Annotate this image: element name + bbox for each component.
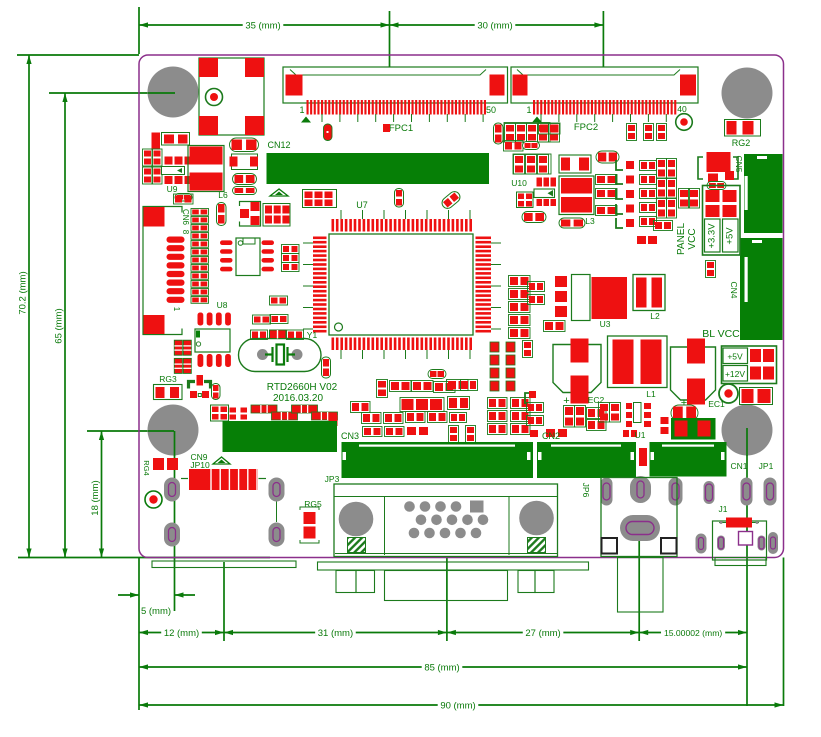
component with white center: [559, 155, 591, 173]
connector CN9 block: [223, 421, 338, 452]
J1 red component: [726, 518, 752, 528]
svg-text:FPC2: FPC2: [574, 122, 598, 133]
CN6 pad bottom: [144, 315, 165, 334]
svg-text:35 (mm): 35 (mm): [245, 20, 280, 31]
svg-text:18 (mm): 18 (mm): [90, 480, 101, 515]
svg-text:2016.03.20: 2016.03.20: [273, 393, 323, 404]
svg-text:90 (mm): 90 (mm): [440, 700, 475, 711]
+5V pads: [750, 349, 761, 362]
svg-text:FPC1: FPC1: [389, 123, 413, 134]
small pad below FPC1: [383, 124, 390, 132]
extension line x=783 right edge: [783, 558, 785, 707]
IC U7 pins bottom: [332, 338, 473, 351]
wire stubs ovals: [276, 502, 278, 523]
pads row U9 area: [165, 157, 173, 165]
pads right of FPC2 cluster: [539, 123, 561, 134]
pads row above U9: [152, 133, 161, 150]
mounting hole bottom-right: [722, 405, 773, 456]
svg-text:CN3: CN3: [341, 431, 359, 441]
J1 oval pads: [696, 534, 707, 554]
svg-text:L2: L2: [650, 311, 660, 321]
extension line y=431 to hole center: [87, 430, 174, 432]
mounting hole top-left: [148, 67, 199, 118]
pads below EC2 cluster: [564, 406, 575, 428]
+12V label box: [723, 366, 748, 382]
L3 pill: [559, 218, 585, 228]
extension line board bottom y=557: [18, 557, 270, 559]
FPC2 pad left: [513, 75, 528, 96]
jumper block panel vcc outline: [703, 186, 741, 256]
vertical pill x220: [217, 203, 227, 226]
HDMI shell oval: [620, 515, 660, 541]
svg-text:40: 40: [677, 104, 687, 114]
svg-text:15.00002 (mm): 15.00002 (mm): [664, 628, 722, 638]
HDMI connector outline: [601, 478, 677, 557]
VGA pin holes: [404, 501, 415, 512]
svg-text:CN12: CN12: [267, 140, 290, 150]
dimension 30 (mm) top: [390, 24, 475, 26]
component above CN6: [174, 194, 194, 204]
buzzer pads: [199, 58, 218, 77]
svg-text:RTD2660H V02: RTD2660H V02: [267, 382, 338, 393]
svg-text:27 (mm): 27 (mm): [525, 628, 560, 639]
svg-text:BL VCC: BL VCC: [702, 328, 740, 340]
dimension 70.2 (mm) left: [28, 55, 30, 558]
svg-text:EC2: EC2: [588, 395, 605, 405]
connector CN1 block: [650, 442, 727, 477]
transistor U1: [634, 403, 642, 423]
FPC1 pad left: [286, 75, 303, 96]
CN6 pin pads: [167, 237, 185, 243]
striped pad components above RG3: [174, 340, 182, 355]
svg-text:RG2: RG2: [732, 138, 751, 148]
connector CN6 outline: [143, 207, 182, 335]
FPC2 pad right: [680, 75, 696, 96]
+5V label box: [723, 348, 748, 364]
dimension extension line left x=139 top: [138, 7, 140, 54]
through hole oval pads CN9: [164, 478, 180, 502]
svg-text:65 (mm): 65 (mm): [54, 308, 65, 343]
VGA hatched mount left: [348, 538, 366, 553]
jumper +5V label box: [723, 219, 739, 252]
VGA screw boss right below: [518, 571, 535, 593]
svg-text:U1: U1: [635, 430, 646, 440]
pads right small: [627, 124, 637, 141]
IC U7 pins right: [476, 237, 492, 333]
dimension 12 (mm): [139, 632, 161, 634]
jumper +3.3V label box: [705, 219, 721, 252]
dimension 5 (mm): [118, 594, 139, 596]
pad grid below CN12: [303, 190, 337, 208]
svg-text:1: 1: [526, 105, 531, 115]
pill pairs column: [233, 174, 257, 185]
IC U6 body: [236, 238, 260, 276]
buzzer SP1 outline: [199, 58, 264, 135]
tall pad columns right of field: [490, 342, 499, 352]
capacitor above panel vcc: [698, 157, 738, 179]
warning triangle near JP10: [213, 457, 230, 464]
IC U7 body: [329, 234, 473, 335]
pads right of EC1: [740, 388, 773, 405]
svg-text:U7: U7: [356, 200, 368, 210]
pads right of L3 block: [596, 175, 618, 185]
svg-text:U3: U3: [600, 319, 611, 329]
svg-text:PANEL: PANEL: [676, 223, 687, 255]
vertical pairs above CN9: [230, 408, 237, 413]
connector FPC2 outline: [511, 67, 698, 103]
pad cluster below FPC2 pin1: [494, 123, 504, 144]
capacitor EC1 ring: [719, 384, 738, 403]
svg-text:CN6: CN6: [181, 209, 190, 226]
pads column x641: [640, 161, 657, 171]
svg-text:+3.3V: +3.3V: [707, 223, 718, 249]
extension line y=55 left: [17, 54, 139, 56]
component right of U9: [232, 154, 258, 170]
red fiducial ring: [145, 491, 162, 508]
svg-text:8: 8: [181, 230, 190, 235]
regulator U3: [572, 275, 591, 321]
svg-text:J1: J1: [719, 504, 728, 514]
two-pad component below U9: [175, 194, 192, 202]
U6 pins left: [220, 240, 233, 245]
VGA hatched mount right: [528, 538, 546, 553]
pad cluster below FPC2 row2: [504, 141, 524, 152]
FPC2 pin 40 ring: [676, 114, 693, 131]
mounting hole top-right: [722, 68, 773, 119]
pads below-left of U3: [544, 321, 566, 332]
warning triangle near CN12: [270, 189, 288, 196]
pads 3x2 grid right: [263, 204, 290, 227]
panel vcc pads: [706, 190, 720, 202]
vertical two pad component below CN12: [395, 189, 404, 208]
svg-text:30 (mm): 30 (mm): [477, 20, 512, 31]
U8 pins bottom: [198, 354, 204, 367]
dimension 31 (mm): [224, 632, 315, 634]
svg-text:CN1: CN1: [730, 461, 747, 471]
capacitor EC1 can: [671, 347, 716, 400]
VGA jack screw right: [519, 501, 554, 536]
pad pairs below U6: [253, 315, 271, 324]
svg-text:1: 1: [172, 307, 181, 312]
pads row below: [165, 176, 173, 184]
svg-text:JP6: JP6: [581, 483, 591, 498]
pads below U10 pill: [522, 212, 546, 223]
bracket strip right below board: [318, 562, 589, 570]
svg-text:JP10: JP10: [190, 460, 210, 470]
FPC2 pin ticks: [540, 114, 542, 122]
dimension 18 (mm) left: [101, 431, 103, 558]
connector CN2 block: [537, 442, 636, 478]
IC U9: [162, 133, 190, 146]
diode D1 white pill: [162, 167, 185, 175]
buzzer center hole: [206, 89, 223, 106]
dimension extension line x=603: [602, 11, 604, 86]
resistor RG2: [725, 120, 761, 137]
pads row above Y1: [251, 330, 268, 340]
red pill right of Y1: [322, 357, 331, 378]
angle bracket column with pads: [616, 160, 623, 170]
VGA screw boss left below: [336, 571, 356, 593]
rotated pill component: [440, 189, 462, 210]
pads cluster left of U1: [599, 403, 610, 423]
svg-text:+5V: +5V: [727, 352, 743, 362]
pads column x658: [657, 159, 667, 179]
green wire bracket right: [525, 393, 534, 404]
extension line x=447: [446, 558, 448, 641]
pads far right of grid: [527, 403, 544, 413]
svg-text:CN4: CN4: [729, 281, 739, 298]
connector CN12 block: [267, 153, 490, 184]
connector BL power outline: [722, 346, 777, 384]
green box pads below EC1: [671, 418, 716, 440]
pads right of U6: [282, 245, 300, 254]
svg-text:RG4: RG4: [142, 460, 151, 475]
svg-text:5 (mm): 5 (mm): [141, 606, 171, 617]
passive pads row4 above CN3: [363, 427, 383, 437]
svg-text:+12V: +12V: [725, 369, 745, 379]
passive pads cluster below U7 row1: [428, 370, 446, 379]
HDMI plug body below: [618, 558, 664, 613]
pads below panel vcc: [706, 261, 716, 278]
extension line y=93 to hole center: [49, 92, 175, 94]
VGA plug body below: [385, 571, 508, 601]
IC U7 pins top: [332, 219, 473, 232]
extension line x=747 right hole: [746, 428, 748, 706]
inductor L6: [188, 146, 224, 192]
dimension lines over holes: [148, 92, 175, 94]
FPC2 comb pins: [533, 100, 676, 115]
red pill below FPC1: [324, 124, 333, 141]
dimension 27 (mm): [447, 632, 523, 634]
svg-text:+5V: +5V: [725, 227, 736, 245]
pads column left of U3: [555, 276, 567, 287]
capacitor EC2: [553, 345, 601, 393]
U7 pin tick marks: [340, 210, 342, 219]
svg-text:L1: L1: [646, 389, 656, 399]
pill pair right of buzzer: [230, 138, 259, 152]
extension line x=639: [638, 538, 640, 641]
pads right of U1: [661, 417, 669, 424]
svg-text:12 (mm): 12 (mm): [164, 628, 199, 639]
CN6 pad top: [144, 207, 165, 227]
connector FPC1 outline: [283, 67, 508, 103]
dimension 85 (mm): [139, 666, 422, 668]
IC U7 pins left: [313, 237, 327, 333]
FPC1 comb pins: [307, 100, 487, 115]
dimension 65 (mm) left: [64, 93, 66, 558]
triple pad components above CN9: [251, 405, 277, 413]
svg-text:85 (mm): 85 (mm): [424, 662, 459, 673]
HDMI mount squares: [602, 538, 618, 554]
through hole ovals bottom row: [601, 478, 613, 506]
svg-text:L6: L6: [218, 190, 228, 200]
svg-text:RG3: RG3: [159, 374, 177, 384]
connector CN3 block: [342, 442, 534, 478]
svg-text:U10: U10: [511, 178, 527, 188]
svg-text:EC1: EC1: [708, 399, 725, 409]
dimension 90 (mm): [139, 704, 438, 706]
svg-text:U9: U9: [167, 184, 178, 194]
extension line x=224: [223, 562, 225, 641]
VGA jack screw left: [339, 502, 374, 537]
FPC1 pad right: [490, 75, 505, 96]
extension line x=139 bottom: [138, 558, 140, 711]
connector CN4 block right: [740, 238, 783, 340]
J1 outline: [713, 521, 767, 560]
passive pads cluster row3: [351, 402, 371, 413]
extension line x=175 hole bottom: [174, 431, 176, 611]
header pads dual row: [191, 209, 209, 216]
inductor L2: [633, 275, 665, 311]
JP10 pin header red comb: [181, 478, 188, 480]
U8 pins top: [198, 313, 204, 326]
mounting hole bottom-left: [148, 405, 199, 456]
dimension 15.00002 (mm): [639, 632, 661, 634]
component right of RG3: [189, 382, 211, 389]
pill pads below EC1: [671, 405, 698, 421]
svg-text:VCC: VCC: [687, 228, 698, 249]
pads right columns near panel vcc: [637, 236, 646, 244]
pad grid above CN3 right: [488, 398, 508, 409]
cross pad component: [240, 202, 261, 227]
svg-text:JP1: JP1: [759, 461, 774, 471]
FPC1 pin ticks: [321, 114, 323, 122]
svg-text:U8: U8: [217, 300, 228, 310]
cluster 2x4 below: [514, 155, 525, 175]
board outline: [139, 55, 784, 558]
pad stack left: [509, 276, 531, 287]
passive pads cluster below U7 row2: [402, 399, 414, 410]
dimension 35 (mm) top: [139, 24, 243, 26]
+12V pads: [750, 367, 761, 380]
J1 body below: [715, 558, 766, 566]
svg-text:JP3: JP3: [325, 474, 340, 484]
U6 pins right: [262, 240, 275, 245]
pad grid above CN9: [211, 405, 229, 421]
passive pads left edge column: [143, 149, 153, 166]
svg-text:L3: L3: [585, 216, 595, 226]
svg-text:CN5: CN5: [734, 155, 744, 172]
svg-text:CN2: CN2: [542, 431, 560, 441]
dimension extension line x=390: [389, 11, 391, 86]
red pad at CN9 corner: [329, 415, 338, 426]
L3 driver block: [559, 176, 594, 215]
VGA connector outline: [334, 484, 558, 557]
pads pair right: [596, 151, 619, 163]
pads below cap above panel vcc: [708, 174, 718, 183]
svg-text:70.2 (mm): 70.2 (mm): [18, 271, 29, 314]
inductor L1: [608, 336, 668, 388]
pads above CN2 strip: [546, 429, 555, 437]
svg-text:1: 1: [299, 105, 304, 115]
small pad pair: [270, 296, 288, 305]
pads between CN2 CN1: [639, 448, 647, 466]
connector CN5 block right: [744, 154, 783, 233]
J1 white box: [739, 532, 753, 546]
vertical pill right of RG3: [212, 384, 221, 400]
bracket strip left below board: [152, 561, 296, 568]
svg-text:50: 50: [486, 105, 496, 115]
svg-text:31 (mm): 31 (mm): [318, 628, 353, 639]
